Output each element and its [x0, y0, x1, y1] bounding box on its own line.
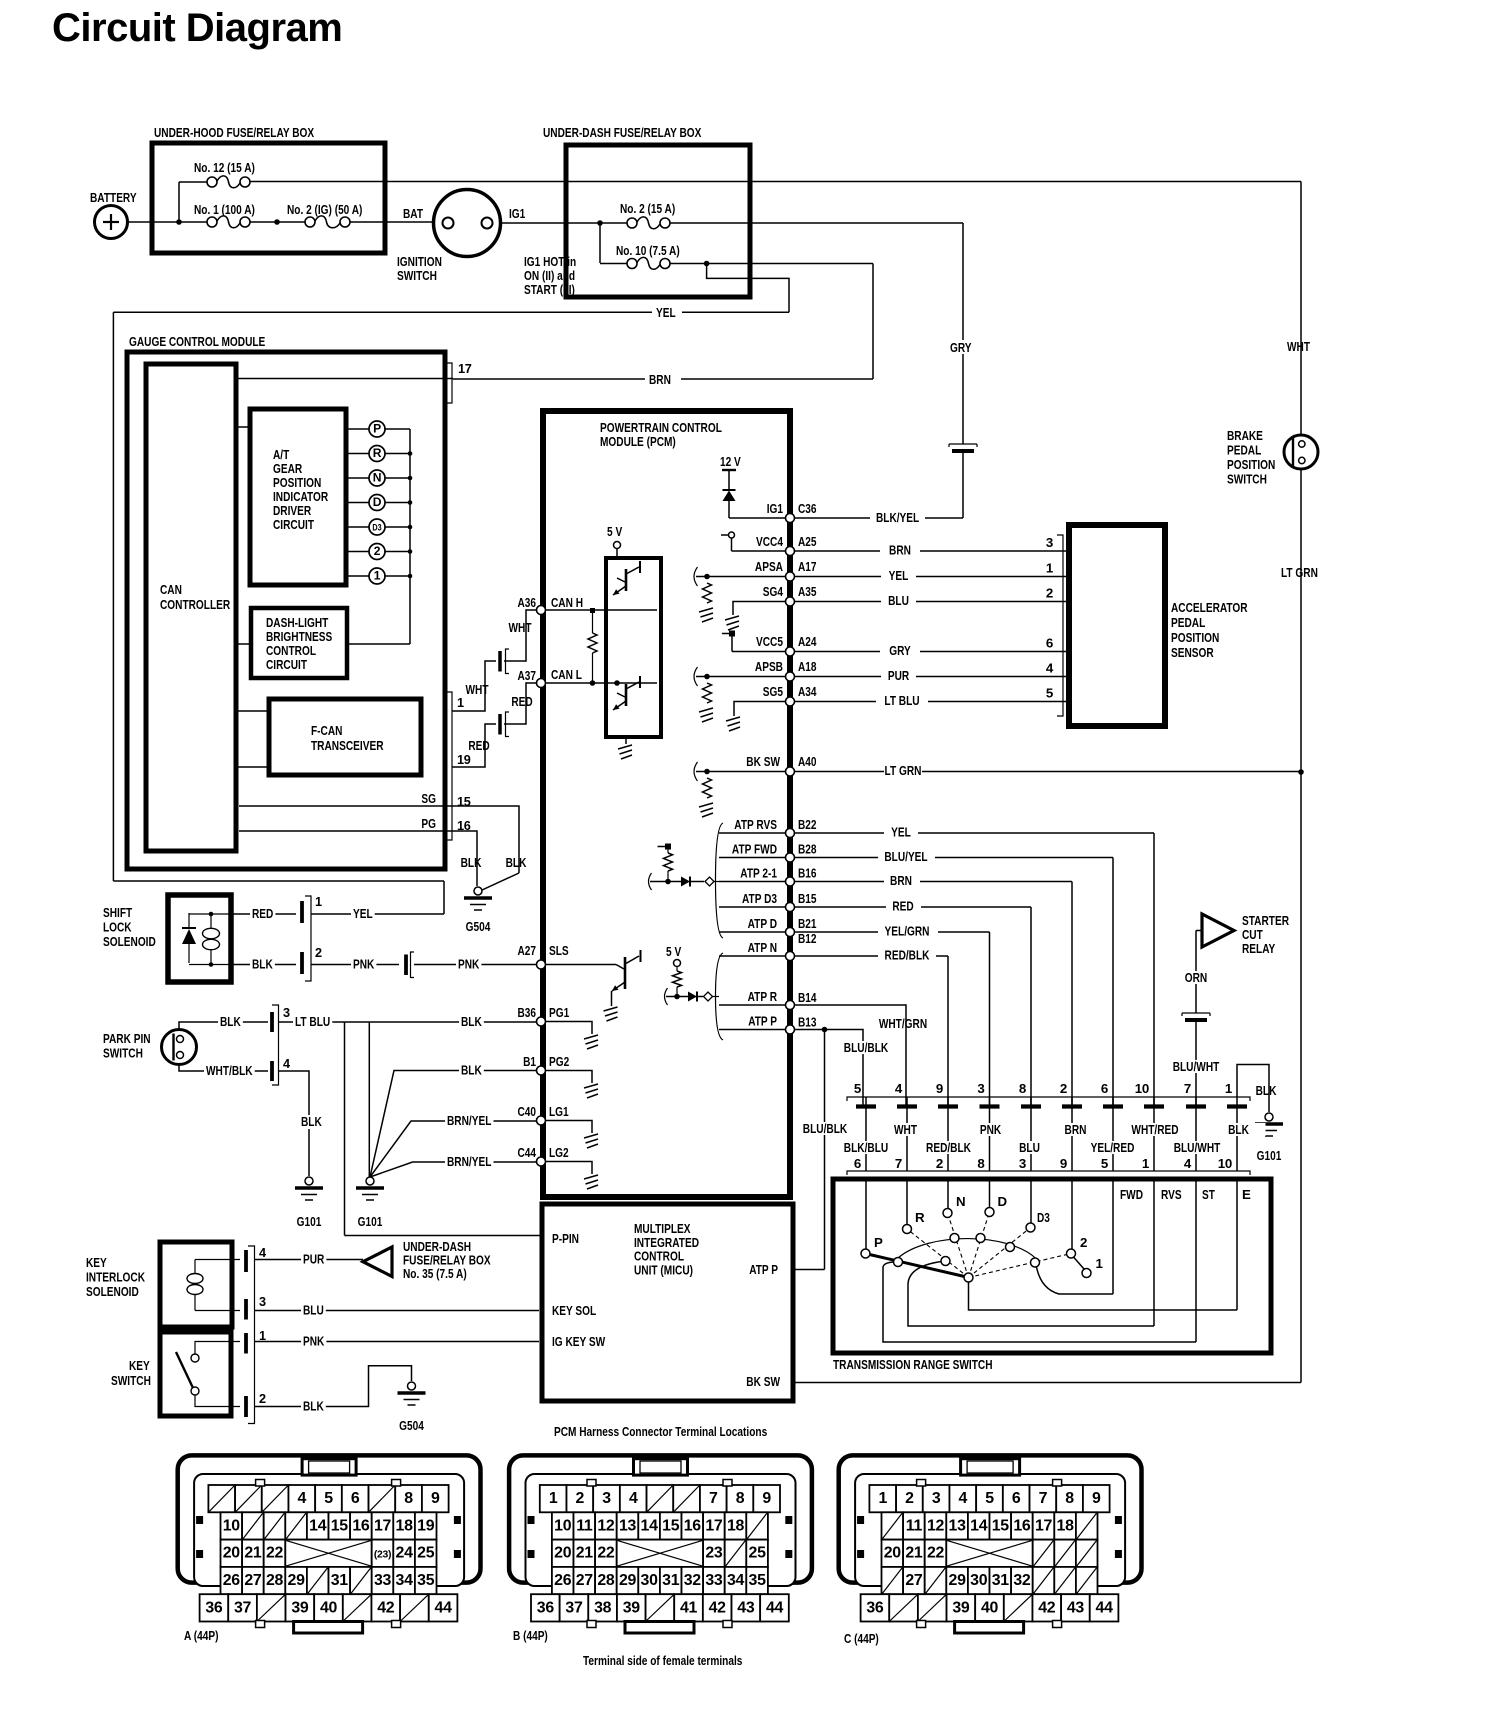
connector B inner shell: [526, 1474, 796, 1586]
wire GRY to sensor pin 6: [794, 651, 880, 653]
ground G101 right: [1265, 1113, 1273, 1121]
wire ATP N B12 RED/BLK: [719, 955, 786, 957]
connector A housing: [178, 1455, 481, 1582]
svg-text:SOLENOID: SOLENOID: [103, 934, 156, 949]
connector C row 1: [869, 1485, 896, 1512]
shift lock solenoid box: [168, 895, 231, 982]
BK SW input network: [694, 762, 698, 781]
pin B15: [786, 903, 795, 912]
svg-text:PUR: PUR: [303, 1252, 325, 1267]
wire color labels row 2: [839, 1141, 893, 1154]
gear indicator bus: [409, 429, 411, 644]
svg-text:36: 36: [866, 1599, 884, 1616]
powertrain control module (PCM) box: [543, 411, 790, 1197]
svg-text:No. 2 (15 A): No. 2 (15 A): [620, 201, 675, 216]
svg-text:B15: B15: [798, 891, 817, 906]
transistor Q CAN L: [617, 693, 625, 697]
key connector bracket: [248, 1246, 255, 1424]
svg-text:IG1: IG1: [767, 501, 784, 516]
gear indicator lamp D3: [346, 526, 369, 528]
wire BLK/YEL vertical: [962, 453, 964, 519]
TRS connector pin top 3 / bottom 8: [989, 1097, 991, 1171]
svg-text:E: E: [1242, 1187, 1251, 1202]
svg-text:BLK: BLK: [303, 1399, 324, 1414]
connector B row 3: [552, 1540, 574, 1567]
svg-text:3: 3: [602, 1490, 611, 1507]
wire LT GRN BK SW: [794, 771, 884, 773]
svg-text:G101: G101: [1257, 1148, 1282, 1163]
wire GRY vertical: [962, 223, 964, 444]
svg-text:BRN/YEL: BRN/YEL: [447, 1113, 491, 1128]
connector B bottom tab: [625, 1622, 694, 1634]
svg-text:2: 2: [1060, 1081, 1067, 1096]
connector A bottom tab: [294, 1622, 363, 1634]
wire between fuses: [250, 221, 305, 223]
svg-text:IG1 HOT in: IG1 HOT in: [524, 254, 576, 269]
svg-text:BLU/BLK: BLU/BLK: [844, 1040, 889, 1055]
connector PNK pair: [404, 955, 408, 976]
TRS column dividers: [1112, 1179, 1114, 1294]
svg-text:3: 3: [1046, 535, 1053, 550]
svg-text:CONTROLLER: CONTROLLER: [160, 597, 230, 612]
CAN controller box: [146, 364, 236, 851]
svg-text:8: 8: [404, 1490, 413, 1507]
pin A35: [786, 597, 795, 606]
pin A17: [786, 572, 795, 581]
wire VCC4: [732, 550, 786, 552]
pin A36: [537, 606, 546, 615]
TRS connector pin top 8 / bottom 3: [1030, 1097, 1032, 1171]
pin A40: [786, 767, 795, 776]
svg-text:2: 2: [315, 946, 322, 960]
svg-text:PNK: PNK: [353, 957, 375, 972]
svg-text:GEAR: GEAR: [273, 461, 302, 476]
svg-text:SWITCH: SWITCH: [397, 268, 437, 283]
wire fuse No.10 output: [670, 263, 873, 265]
svg-text:BLK: BLK: [220, 1014, 241, 1029]
junction LT GRN / BK SW: [1298, 769, 1304, 775]
svg-text:RED/BLK: RED/BLK: [885, 948, 930, 963]
svg-text:CAN H: CAN H: [551, 595, 583, 610]
wire key switch to pin2: [195, 1395, 240, 1407]
svg-text:GRY: GRY: [950, 340, 972, 355]
svg-text:YEL: YEL: [656, 305, 676, 320]
svg-text:A35: A35: [798, 584, 817, 599]
svg-text:10: 10: [223, 1517, 241, 1534]
svg-text:WHT: WHT: [1287, 339, 1310, 354]
TRS connector bracket lower: [847, 1171, 1250, 1175]
svg-text:15: 15: [457, 795, 471, 809]
svg-text:POSITION: POSITION: [273, 475, 321, 490]
TRS connector pin top 6 / bottom 5: [1112, 1097, 1114, 1171]
svg-text:4: 4: [1184, 1156, 1192, 1171]
TRS wiper arc: [898, 1239, 1036, 1259]
wire VCC5: [732, 651, 786, 653]
svg-text:VCC4: VCC4: [756, 534, 783, 549]
svg-text:5: 5: [854, 1081, 862, 1096]
svg-text:CIRCUIT: CIRCUIT: [273, 517, 314, 532]
svg-text:APSA: APSA: [755, 559, 783, 574]
svg-text:ACCELERATOR: ACCELERATOR: [1171, 600, 1248, 615]
connector C row 2: [882, 1512, 904, 1539]
svg-text:BLU: BLU: [1019, 1140, 1040, 1155]
svg-text:14: 14: [970, 1517, 988, 1534]
svg-text:3: 3: [932, 1490, 941, 1507]
svg-text:29: 29: [288, 1572, 306, 1589]
svg-text:38: 38: [594, 1599, 612, 1616]
svg-text:ATP D3: ATP D3: [742, 891, 777, 906]
gear indicator lamp N: [346, 477, 369, 479]
svg-text:A17: A17: [798, 559, 817, 574]
connector C housing: [839, 1455, 1142, 1582]
svg-text:PG1: PG1: [549, 1005, 570, 1020]
pin A25: [786, 547, 795, 556]
connector C clips: [857, 1516, 864, 1524]
svg-text:A18: A18: [798, 659, 817, 674]
svg-text:PG: PG: [421, 816, 436, 831]
gauge control module box: [127, 352, 445, 869]
svg-text:26: 26: [223, 1572, 241, 1589]
svg-text:BLU: BLU: [303, 1303, 324, 1318]
svg-text:BLK: BLK: [252, 957, 273, 972]
svg-text:(23): (23): [374, 1550, 391, 1561]
svg-text:F-CAN: F-CAN: [311, 723, 342, 738]
wire key switch to pin1: [195, 1342, 240, 1355]
diode ATP upper: [681, 877, 690, 887]
wire fan C40: [370, 1121, 537, 1177]
svg-text:A27: A27: [518, 943, 537, 958]
wire ATP RVS B22 YEL: [719, 832, 786, 834]
svg-text:ATP 2-1: ATP 2-1: [740, 866, 777, 881]
pin A18: [786, 672, 795, 681]
svg-text:ATP RVS: ATP RVS: [734, 817, 777, 832]
svg-text:LOCK: LOCK: [103, 920, 132, 935]
wire PG to G504: [452, 831, 477, 886]
TRS FWD return: [1037, 1267, 1114, 1294]
svg-text:26: 26: [554, 1572, 572, 1589]
svg-text:22: 22: [927, 1545, 945, 1562]
svg-text:33: 33: [705, 1572, 723, 1589]
svg-text:2: 2: [905, 1490, 914, 1507]
svg-text:IG KEY SW: IG KEY SW: [552, 1334, 606, 1349]
svg-text:BLK: BLK: [506, 855, 527, 870]
svg-text:B1: B1: [523, 1054, 536, 1069]
wire ATP P MICU: [793, 1269, 825, 1271]
svg-text:SWITCH: SWITCH: [1227, 472, 1267, 487]
pin B14: [786, 1001, 795, 1010]
connector C inner shell: [855, 1474, 1125, 1586]
svg-text:C36: C36: [798, 501, 817, 516]
wire SG: [239, 805, 452, 807]
svg-text:2: 2: [576, 1490, 585, 1507]
svg-text:YEL/GRN: YEL/GRN: [885, 924, 930, 939]
A/T gear position indicator driver circuit box: [250, 409, 346, 585]
svg-text:G504: G504: [399, 1418, 424, 1433]
svg-text:12: 12: [927, 1517, 945, 1534]
wire coil to pin4: [195, 1259, 240, 1261]
svg-text:29: 29: [619, 1572, 637, 1589]
svg-text:RELAY: RELAY: [1242, 941, 1275, 956]
shift lock connector bracket: [305, 896, 311, 981]
svg-text:TRANSMISSION RANGE SWITCH: TRANSMISSION RANGE SWITCH: [833, 1357, 993, 1372]
APSB input network: [694, 667, 698, 686]
svg-text:ATP FWD: ATP FWD: [732, 842, 777, 857]
svg-text:CAN: CAN: [160, 582, 182, 597]
pin B16: [786, 877, 795, 886]
connector C row 3: [882, 1540, 904, 1567]
wire BLK/YEL run: [794, 517, 870, 519]
pin C36: [786, 514, 795, 523]
svg-text:RED/BLK: RED/BLK: [926, 1140, 971, 1155]
svg-text:42: 42: [1038, 1599, 1056, 1616]
connector RED pair: [498, 714, 502, 735]
wire WHT top run: [250, 181, 1301, 183]
svg-text:BAT: BAT: [403, 206, 423, 221]
svg-text:PARK PIN: PARK PIN: [103, 1031, 151, 1046]
connector B row 2: [552, 1512, 574, 1539]
TRS connector pin top 9 / bottom 2: [947, 1097, 949, 1171]
svg-text:POSITION: POSITION: [1171, 630, 1219, 645]
svg-text:10: 10: [1135, 1081, 1149, 1096]
TRS connector pin top 7 / bottom 4: [1195, 1097, 1197, 1171]
connector B row 5: [531, 1594, 560, 1621]
svg-text:A25: A25: [798, 534, 817, 549]
SG4 ground: [733, 602, 786, 616]
svg-text:A (44P): A (44P): [184, 1628, 219, 1643]
svg-text:YEL: YEL: [889, 568, 909, 583]
svg-text:LG1: LG1: [549, 1104, 569, 1119]
svg-text:34: 34: [727, 1572, 745, 1589]
connector A row 3: [221, 1540, 243, 1567]
svg-text:3: 3: [1019, 1156, 1026, 1171]
svg-text:A37: A37: [518, 668, 537, 683]
wire CAN to F-CAN lower: [236, 766, 269, 768]
wire YEL from connector 1: [311, 913, 444, 915]
svg-text:LT BLU: LT BLU: [295, 1014, 330, 1029]
svg-text:2: 2: [1080, 1235, 1087, 1250]
svg-text:BLK/YEL: BLK/YEL: [876, 510, 919, 525]
svg-text:D: D: [998, 1194, 1008, 1209]
wire RED shift lock: [231, 913, 296, 915]
TRS pivot contact: [964, 1273, 973, 1282]
wire ATP FWD B28 BLU/YEL: [719, 857, 786, 859]
svg-text:24: 24: [396, 1545, 414, 1562]
svg-text:WHT: WHT: [466, 682, 489, 697]
svg-text:12 V: 12 V: [720, 454, 741, 469]
svg-text:18: 18: [396, 1517, 414, 1534]
svg-text:27: 27: [576, 1572, 594, 1589]
svg-text:15: 15: [992, 1517, 1010, 1534]
connector diamond ATP lower: [704, 992, 713, 1001]
svg-text:BRN: BRN: [649, 372, 671, 387]
svg-text:Terminal side of female termin: Terminal side of female terminals: [583, 1653, 742, 1668]
svg-text:2: 2: [374, 544, 381, 558]
svg-text:22: 22: [597, 1545, 615, 1562]
svg-text:31: 31: [992, 1572, 1010, 1589]
svg-text:B14: B14: [798, 990, 817, 1005]
wire fan B1: [370, 1071, 537, 1178]
svg-text:BLU/WHT: BLU/WHT: [1174, 1140, 1221, 1155]
svg-text:1: 1: [374, 568, 381, 582]
junction CAN L: [590, 680, 596, 686]
svg-text:1: 1: [549, 1490, 558, 1507]
svg-text:BLU/WHT: BLU/WHT: [1173, 1059, 1220, 1074]
wire BLU/BLK to MICU: [824, 1030, 826, 1270]
wire LT BLU to P-PIN: [344, 1022, 346, 1236]
svg-text:A24: A24: [798, 634, 817, 649]
svg-text:BLK: BLK: [461, 1063, 482, 1078]
svg-text:BK SW: BK SW: [746, 1374, 780, 1389]
svg-text:9: 9: [1092, 1490, 1101, 1507]
svg-text:PEDAL: PEDAL: [1171, 615, 1205, 630]
svg-text:6: 6: [1012, 1490, 1021, 1507]
svg-text:D3: D3: [372, 522, 381, 533]
svg-text:BRAKE: BRAKE: [1227, 428, 1263, 443]
svg-text:34: 34: [396, 1572, 414, 1589]
svg-text:5 V: 5 V: [666, 944, 681, 959]
pin B21: [786, 928, 795, 937]
svg-text:10: 10: [1218, 1156, 1232, 1171]
svg-text:40: 40: [320, 1599, 338, 1616]
pin B22: [786, 829, 795, 838]
connector A row 4: [221, 1567, 243, 1594]
svg-text:WHT: WHT: [509, 620, 532, 635]
svg-text:35: 35: [749, 1572, 767, 1589]
CAN driver transistor box: [606, 558, 661, 737]
brake pedal position switch: [1284, 435, 1318, 469]
VCC4 node symbol: [721, 534, 728, 536]
sensor pins bracket: [1057, 535, 1063, 716]
svg-text:YEL: YEL: [891, 825, 911, 840]
svg-text:27: 27: [244, 1572, 262, 1589]
svg-text:7: 7: [1039, 1490, 1048, 1507]
svg-text:3: 3: [259, 1295, 266, 1309]
wire ATP D3 B15 RED: [719, 906, 786, 908]
wire fuse box to ignition switch: [350, 221, 434, 223]
svg-text:No. 12 (15 A): No. 12 (15 A): [194, 160, 255, 175]
svg-text:IGNITION: IGNITION: [397, 254, 442, 269]
wire park pin top: [179, 1022, 268, 1030]
svg-text:1: 1: [457, 696, 464, 710]
svg-text:1: 1: [1046, 561, 1054, 576]
fuse No.2 IG (50A): [305, 217, 315, 227]
svg-text:28: 28: [266, 1572, 284, 1589]
svg-text:D3: D3: [1037, 1210, 1050, 1225]
svg-text:CONTROL: CONTROL: [266, 643, 316, 658]
multiplex integrated control unit box: [542, 1204, 793, 1401]
ATP bracket upper: [716, 823, 724, 938]
svg-text:44: 44: [1096, 1599, 1114, 1616]
svg-text:B12: B12: [798, 931, 817, 946]
svg-text:VCC5: VCC5: [756, 634, 783, 649]
svg-text:9: 9: [936, 1081, 943, 1096]
svg-text:36: 36: [205, 1599, 223, 1616]
svg-text:17: 17: [374, 1517, 392, 1534]
wire park pin bottom: [179, 1064, 268, 1071]
svg-text:4: 4: [298, 1490, 307, 1507]
connector B clips: [528, 1516, 535, 1524]
svg-text:P: P: [373, 421, 381, 435]
starter cut relay: [1202, 914, 1234, 947]
svg-text:ATP N: ATP N: [748, 940, 777, 955]
svg-text:B (44P): B (44P): [513, 1628, 548, 1643]
svg-text:44: 44: [766, 1599, 784, 1616]
junction fuse No.10: [704, 261, 710, 267]
svg-text:1: 1: [1096, 1256, 1104, 1271]
gauge pins bracket: [446, 692, 452, 840]
connector A clips: [196, 1516, 203, 1524]
wire PNK from connector 2: [311, 964, 399, 966]
svg-text:TRANSCEIVER: TRANSCEIVER: [311, 738, 384, 753]
svg-text:4: 4: [259, 1246, 266, 1260]
svg-text:UNIT (MICU): UNIT (MICU): [634, 1262, 693, 1277]
svg-text:6: 6: [854, 1156, 861, 1171]
ground G101 park pin: [305, 1177, 313, 1185]
svg-text:B22: B22: [798, 817, 817, 832]
junction under-dash feed: [597, 220, 603, 226]
TRS E return: [969, 1282, 1238, 1310]
svg-text:B16: B16: [798, 866, 817, 881]
svg-text:CUT: CUT: [1242, 927, 1263, 942]
svg-text:BRN: BRN: [1065, 1122, 1087, 1137]
svg-text:16: 16: [1013, 1517, 1031, 1534]
svg-text:18: 18: [1057, 1517, 1075, 1534]
svg-text:BRN: BRN: [889, 543, 911, 558]
svg-text:32: 32: [684, 1572, 702, 1589]
svg-text:B21: B21: [798, 916, 817, 931]
svg-text:BLK: BLK: [461, 1014, 482, 1029]
TRS connector bracket upper: [847, 1097, 1250, 1101]
svg-text:3: 3: [283, 1006, 290, 1020]
pin A24: [786, 647, 795, 656]
svg-text:RED: RED: [468, 738, 490, 753]
svg-text:9: 9: [431, 1490, 440, 1507]
svg-text:PNK: PNK: [303, 1334, 325, 1349]
svg-text:4: 4: [629, 1490, 638, 1507]
svg-text:BLU: BLU: [888, 593, 909, 608]
termination resistor CAN: [592, 613, 594, 633]
svg-text:6: 6: [1101, 1081, 1108, 1096]
wire 17 from CAN controller: [236, 378, 453, 380]
svg-text:BK SW: BK SW: [746, 754, 780, 769]
gear indicator lamp R: [346, 453, 369, 455]
svg-text:POWERTRAIN CONTROL: POWERTRAIN CONTROL: [600, 420, 722, 435]
svg-text:17: 17: [1035, 1517, 1053, 1534]
svg-text:20: 20: [884, 1545, 902, 1562]
svg-text:IG1: IG1: [509, 206, 526, 221]
pin A34: [786, 697, 795, 706]
pin B13: [786, 1025, 795, 1034]
wire branch to fuse No.10: [599, 223, 601, 263]
wire pin19 to connector RED: [452, 724, 496, 767]
fuse No.10 (7.5A): [600, 263, 627, 265]
svg-text:7: 7: [895, 1156, 902, 1171]
TRS link 2 to 1: [1074, 1257, 1085, 1269]
svg-text:25: 25: [417, 1545, 435, 1562]
wire BRN run to gauge pin 17: [453, 378, 873, 380]
svg-text:SHIFT: SHIFT: [103, 905, 132, 920]
wire LT BLU to sensor pin 5: [794, 701, 876, 703]
svg-text:KEY: KEY: [86, 1255, 107, 1270]
svg-text:9: 9: [1060, 1156, 1067, 1171]
svg-text:BLK: BLK: [1256, 1083, 1277, 1098]
svg-text:16: 16: [352, 1517, 370, 1534]
wire RED to A37: [504, 683, 537, 724]
wire BLK to G101 right: [1237, 1065, 1269, 1113]
connector C top tab: [961, 1459, 1020, 1475]
svg-text:R: R: [915, 1210, 925, 1225]
svg-text:UNDER-DASH FUSE/RELAY BOX: UNDER-DASH FUSE/RELAY BOX: [543, 125, 701, 140]
